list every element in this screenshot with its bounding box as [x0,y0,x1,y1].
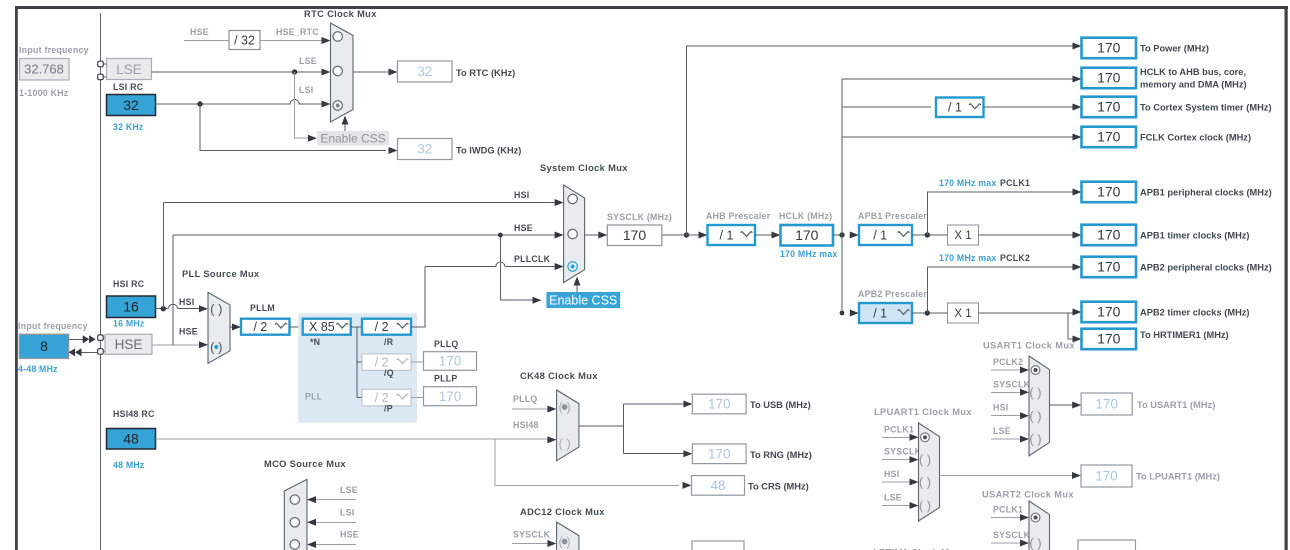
svg-text:1-1000 KHz: 1-1000 KHz [19,88,69,98]
svg-text:/ 2: / 2 [375,320,389,334]
svg-text:170: 170 [1097,129,1121,145]
svg-text:PCLK2: PCLK2 [1000,253,1030,263]
svg-text:HSE: HSE [179,327,198,337]
svg-text:/ 32: / 32 [234,34,255,48]
svg-text:16 MHz: 16 MHz [113,319,145,329]
svg-text:170: 170 [1097,331,1121,347]
svg-text:X 85: X 85 [309,320,335,334]
svg-text:PLLCLK: PLLCLK [514,254,551,264]
svg-text:170: 170 [795,227,819,243]
svg-text:170: 170 [1097,184,1121,200]
svg-text:/ 1: / 1 [948,101,962,115]
svg-text:USART1 Clock Mux: USART1 Clock Mux [983,341,1075,351]
svg-text:170: 170 [439,354,462,369]
svg-text:( ): ( ) [919,452,931,467]
svg-text:/ 1: / 1 [873,306,887,320]
svg-text:8: 8 [40,338,48,354]
svg-text:48: 48 [710,478,725,493]
svg-text:170: 170 [623,227,647,243]
svg-text:/R: /R [384,337,394,347]
svg-text:To Cortex System timer (MHz): To Cortex System timer (MHz) [1140,103,1272,113]
svg-text:memory and DMA (MHz): memory and DMA (MHz) [1140,80,1247,90]
svg-text:To HRTIMER1 (MHz): To HRTIMER1 (MHz) [1140,330,1229,340]
svg-text:32: 32 [417,142,432,157]
svg-text:HSI RC: HSI RC [113,279,145,289]
svg-text:LSE: LSE [340,485,358,495]
svg-text:PLL Source Mux: PLL Source Mux [182,269,260,279]
svg-text:170: 170 [1097,227,1121,243]
svg-text:170: 170 [1097,99,1121,115]
svg-text:170: 170 [708,397,731,412]
svg-text:CK48 Clock Mux: CK48 Clock Mux [520,371,598,381]
svg-text:APB1 Prescaler: APB1 Prescaler [858,211,927,221]
svg-text:32: 32 [123,97,139,113]
svg-text:X 1: X 1 [954,230,971,242]
svg-text:PCLK1: PCLK1 [1000,178,1030,188]
svg-text:HCLK (MHz): HCLK (MHz) [779,211,832,221]
svg-text:( ): ( ) [1029,432,1041,447]
svg-text:HSI48: HSI48 [513,420,539,430]
svg-text:APB1 timer clocks (MHz): APB1 timer clocks (MHz) [1140,231,1250,241]
svg-text:( ): ( ) [1029,385,1041,400]
svg-text:/Q: /Q [384,368,394,378]
svg-text:48 MHz: 48 MHz [113,460,145,470]
svg-text:APB2 peripheral clocks (MHz): APB2 peripheral clocks (MHz) [1140,263,1272,273]
svg-text:PCLK1: PCLK1 [884,424,914,434]
svg-text:32: 32 [417,64,432,79]
svg-text:/P: /P [384,404,393,414]
svg-text:SYSCLK (MHz): SYSCLK (MHz) [607,212,672,222]
svg-text:( ): ( ) [1029,536,1041,550]
svg-text:/ 1: / 1 [720,228,734,242]
svg-text:PCLK1: PCLK1 [993,505,1023,515]
svg-text:To RTC (KHz): To RTC (KHz) [456,68,515,78]
svg-text:LSE: LSE [116,62,142,77]
svg-text:170 MHz max: 170 MHz max [780,249,837,259]
svg-text:Enable CSS: Enable CSS [549,294,617,308]
svg-text:*N: *N [310,337,320,347]
svg-text:USART2 Clock Mux: USART2 Clock Mux [982,490,1074,500]
svg-text:32.768: 32.768 [24,62,64,77]
svg-text:170 MHz max: 170 MHz max [939,253,996,263]
svg-text:To RNG (MHz): To RNG (MHz) [750,450,812,460]
svg-text:LPUART1 Clock Mux: LPUART1 Clock Mux [874,407,972,417]
svg-text:32 KHz: 32 KHz [113,122,144,132]
svg-text:( ): ( ) [919,498,931,513]
svg-text:SYSCLK: SYSCLK [993,530,1031,540]
svg-text:LSI: LSI [340,508,354,518]
svg-text:HCLK to AHB bus, core,: HCLK to AHB bus, core, [1140,67,1246,77]
svg-text:X 1: X 1 [954,308,971,320]
svg-text:HSE_RTC: HSE_RTC [276,27,319,37]
svg-text:HSI: HSI [884,469,899,479]
svg-text:( ): ( ) [1029,408,1041,423]
svg-text:170: 170 [1095,469,1118,484]
svg-text:PLLQ: PLLQ [434,339,458,349]
svg-text:APB1 peripheral clocks (MHz): APB1 peripheral clocks (MHz) [1140,188,1272,198]
svg-text:/ 1: / 1 [873,228,887,242]
svg-text:To USB (MHz): To USB (MHz) [750,400,811,410]
svg-text:To USART1 (MHz): To USART1 (MHz) [1137,400,1215,410]
svg-text:HSE: HSE [115,337,143,352]
svg-text:To CRS (MHz): To CRS (MHz) [748,482,809,492]
svg-text:HSE: HSE [340,530,359,540]
svg-text:PLL: PLL [305,392,323,402]
svg-text:HSI: HSI [993,403,1008,413]
svg-text:APB2 timer clocks (MHz): APB2 timer clocks (MHz) [1140,308,1250,318]
svg-text:To Power (MHz): To Power (MHz) [1140,44,1209,54]
svg-text:4-48 MHz: 4-48 MHz [18,364,58,374]
svg-text:/ 2: / 2 [253,320,267,334]
svg-text:SYSCLK: SYSCLK [513,530,551,540]
svg-text:170 MHz max: 170 MHz max [939,178,996,188]
svg-text:170: 170 [1095,397,1118,412]
svg-text:170: 170 [1097,70,1121,86]
svg-text:To LPUART1 (MHz): To LPUART1 (MHz) [1136,472,1220,482]
svg-text:170: 170 [1097,304,1121,320]
svg-text:RTC Clock Mux: RTC Clock Mux [304,9,377,19]
svg-text:HSI48 RC: HSI48 RC [113,409,155,419]
svg-text:HSE: HSE [190,27,209,37]
svg-text:( ): ( ) [919,475,931,490]
svg-text:48: 48 [123,431,139,447]
svg-text:ADC12 Clock Mux: ADC12 Clock Mux [520,507,605,517]
svg-text:170: 170 [439,389,462,404]
svg-text:( ): ( ) [558,436,570,451]
svg-text:LSE: LSE [299,56,317,66]
svg-text:LSI RC: LSI RC [113,82,144,92]
svg-text:SYSCLK: SYSCLK [884,447,922,457]
svg-text:PLLM: PLLM [250,303,275,313]
svg-text:MCO Source Mux: MCO Source Mux [264,459,346,469]
svg-text:Input frequency: Input frequency [18,321,88,331]
svg-text:Input frequency: Input frequency [19,45,89,55]
svg-text:HSI: HSI [179,297,194,307]
svg-text:PLLQ: PLLQ [513,394,537,404]
svg-text:170: 170 [708,446,731,461]
svg-text:APB2 Prescaler: APB2 Prescaler [858,289,927,299]
svg-text:HSI: HSI [514,190,529,200]
svg-text:170: 170 [1097,259,1121,275]
svg-text:System Clock Mux: System Clock Mux [540,163,628,173]
svg-text:AHB Prescaler: AHB Prescaler [706,211,771,221]
svg-text:16: 16 [123,299,139,315]
svg-text:SYSCLK: SYSCLK [993,379,1031,389]
svg-text:PCLK2: PCLK2 [993,357,1023,367]
svg-text:LSI: LSI [299,85,313,95]
svg-text:Enable CSS: Enable CSS [320,131,385,145]
svg-text:HSE: HSE [514,223,533,233]
svg-text:To IWDG (KHz): To IWDG (KHz) [456,146,521,156]
svg-text:PLLP: PLLP [434,374,457,384]
svg-text:FCLK Cortex clock (MHz): FCLK Cortex clock (MHz) [1140,133,1251,143]
svg-text:LSE: LSE [884,493,902,503]
svg-text:LSE: LSE [993,426,1011,436]
svg-text:170: 170 [1097,40,1121,56]
svg-text:( ): ( ) [210,301,222,316]
